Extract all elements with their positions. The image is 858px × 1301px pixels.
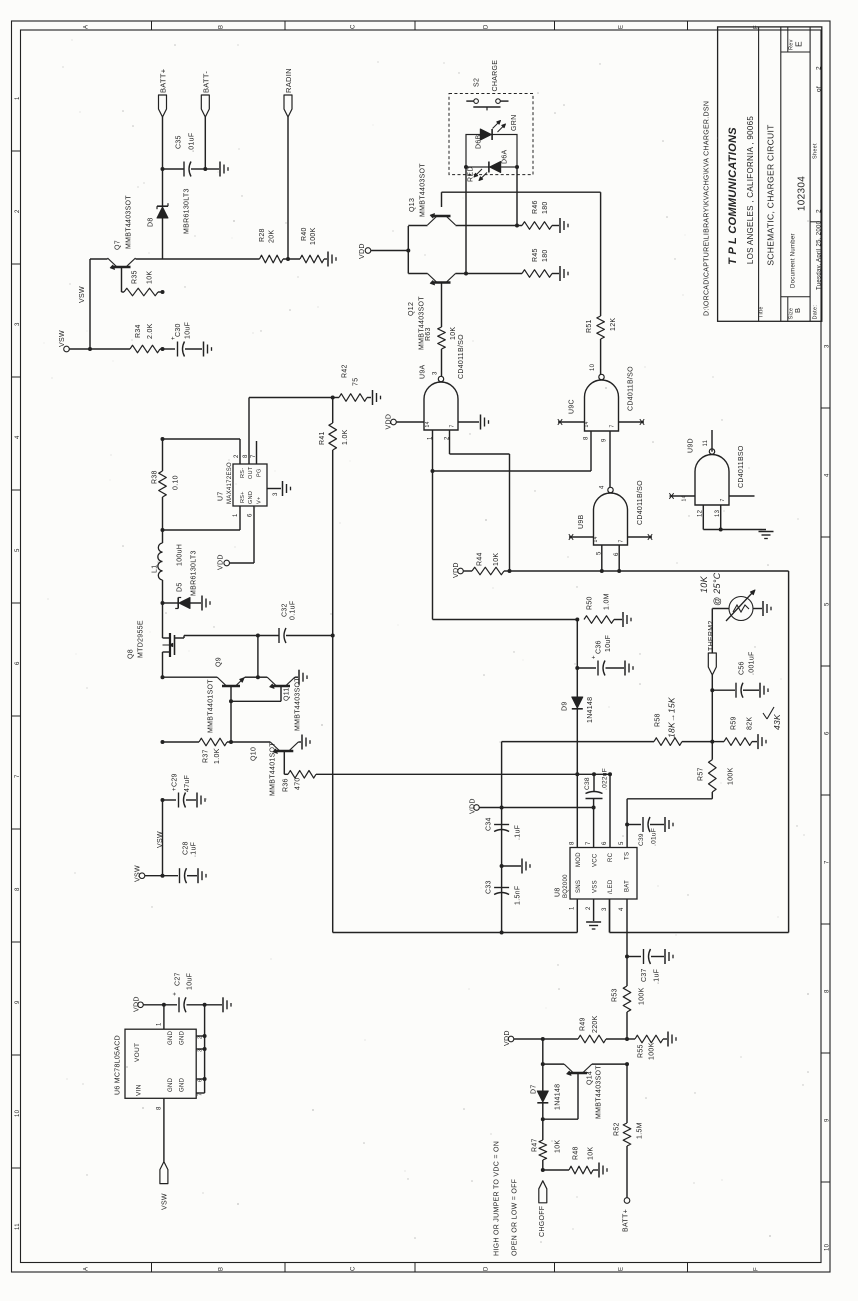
ground at U9D inputs: [759, 530, 774, 539]
svg-text:GND: GND: [168, 1030, 174, 1045]
svg-text:GND: GND: [168, 1077, 174, 1092]
title text doc number 102304: [797, 176, 808, 211]
svg-text:R40: R40: [301, 227, 308, 241]
connector CHGOFF: [539, 1181, 547, 1237]
svg-text:LOS ANGELES , CALIFORNIA , 900: LOS ANGELES , CALIFORNIA , 90065: [746, 116, 755, 265]
svg-text:U6 MC78L05ACD: U6 MC78L05ACD: [115, 1035, 122, 1095]
title text rev E: [794, 41, 804, 47]
wire therm node up to THERM2: [711, 675, 713, 742]
wire C37 to ground: [651, 956, 664, 958]
connector VSW (bottom): [160, 1162, 169, 1210]
wire to Q9: [163, 676, 218, 678]
svg-text:4: 4: [15, 435, 21, 439]
svg-text:R49: R49: [580, 1017, 587, 1031]
svg-text:3: 3: [433, 371, 439, 375]
svg-text:R34: R34: [135, 324, 142, 338]
svg-text:2: 2: [234, 454, 240, 458]
svg-text:1.0M: 1.0M: [604, 593, 611, 610]
svg-text:U9A: U9A: [420, 364, 427, 379]
svg-text:MBR6130LT3: MBR6130LT3: [184, 188, 191, 234]
pin 4 of U8: [619, 907, 625, 911]
svg-text:10: 10: [15, 1109, 21, 1117]
pin 12 of U9D: [698, 509, 704, 517]
ic U7 MAX4172ESO: [218, 462, 268, 506]
diode D5 MBR6130LT3: [175, 550, 201, 608]
svg-text:Document Number: Document Number: [791, 233, 797, 288]
wire pin1 node to U9C pin8: [433, 431, 592, 471]
junction VDD/VCC: [592, 806, 596, 810]
svg-text:B: B: [219, 25, 225, 29]
svg-text:10uF: 10uF: [605, 635, 612, 652]
svg-text:TS: TS: [625, 852, 631, 860]
node VSW (upper): [59, 330, 69, 352]
note open or low: [512, 1179, 519, 1256]
svg-text:R59: R59: [731, 716, 738, 730]
wire /LED pin down: [609, 899, 611, 933]
svg-text:D: D: [484, 24, 490, 29]
svg-text:Q14: Q14: [587, 1071, 594, 1085]
wire C27 to ground: [187, 1003, 223, 1007]
junction Q9 collector on BATT+ line: [161, 675, 165, 679]
svg-text:VOUT: VOUT: [134, 1043, 141, 1062]
wire U7 V+ to VDD: [230, 506, 255, 563]
svg-text:C29: C29: [172, 773, 179, 787]
svg-text:HIGH OR JUMPER TO VDC = ON: HIGH OR JUMPER TO VDC = ON: [494, 1141, 501, 1256]
junction D5 on BATT+/L1 node: [161, 601, 165, 605]
svg-text:Title: Title: [759, 306, 765, 318]
svg-text:R47: R47: [532, 1138, 539, 1152]
resistor R45 180: [522, 248, 559, 277]
svg-text:102304: 102304: [797, 176, 808, 211]
svg-text:R52: R52: [614, 1122, 621, 1136]
svg-text:3: 3: [273, 492, 279, 496]
svg-text:.022uF: .022uF: [602, 768, 609, 790]
svg-text:@ 25°C: @ 25°C: [712, 572, 722, 606]
resistor R46 180: [522, 200, 559, 229]
svg-text:C56: C56: [739, 661, 746, 675]
wire VDD to R44: [463, 570, 472, 572]
capacitor C33 1.5nF: [486, 880, 522, 905]
svg-text:S2: S2: [474, 78, 481, 87]
svg-text:10K: 10K: [588, 1147, 595, 1160]
svg-text:R38: R38: [152, 470, 159, 484]
svg-text:7: 7: [610, 424, 616, 427]
svg-text:8: 8: [243, 454, 249, 458]
svg-text:100K: 100K: [310, 227, 317, 245]
resistor R47 10K: [532, 1119, 562, 1170]
svg-text:+: +: [592, 655, 598, 659]
pin 6 of U6: [198, 1079, 204, 1082]
nand gate U9D CD4011BSO: [688, 438, 746, 505]
junction Q14 emitter line: [541, 1062, 545, 1066]
wire C30 to ground: [185, 348, 202, 350]
svg-text:V+: V+: [257, 497, 263, 504]
wire Q12 collector line to R45: [456, 272, 523, 276]
resistor R38 0.10 (sense): [152, 439, 180, 530]
junction C36 node: [575, 666, 579, 670]
wire R63 to U9A output: [441, 349, 443, 377]
svg-text:Q10: Q10: [251, 747, 258, 761]
svg-text:VSW: VSW: [135, 865, 142, 882]
ground at R46: [560, 218, 568, 233]
LED D6B GRN: [476, 115, 519, 149]
svg-text:E: E: [619, 1267, 625, 1271]
junction pin6: [617, 569, 621, 573]
U9B left stub: [569, 534, 599, 542]
junction pin5: [600, 569, 604, 573]
svg-text:8: 8: [584, 436, 590, 440]
transistor Q12 MMBT4403SOT: [408, 274, 456, 351]
wire BATT- node to ground: [205, 168, 219, 170]
junction therm node: [710, 740, 714, 744]
svg-text:7: 7: [15, 774, 21, 778]
svg-text:MOD: MOD: [576, 852, 582, 867]
node VDD (Q12/Q13 drive): [359, 243, 371, 259]
title block frame: [718, 27, 822, 321]
wire Q14 collector to R52 net: [592, 1062, 629, 1066]
title label Document Number: [791, 233, 797, 288]
pin 1 of U6: [157, 1022, 163, 1026]
title text size B: [793, 308, 802, 313]
svg-text:MMBT4403SOT: MMBT4403SOT: [126, 195, 133, 249]
svg-text:GND: GND: [180, 1030, 186, 1045]
svg-text:VDD: VDD: [386, 414, 393, 430]
svg-text:C27: C27: [175, 972, 182, 986]
junction R35 to BATT+ line: [161, 290, 165, 294]
svg-text:Q13: Q13: [409, 198, 416, 212]
svg-text:CHGOFF: CHGOFF: [539, 1206, 546, 1237]
svg-text:3: 3: [825, 344, 831, 348]
svg-text:.001uF: .001uF: [749, 651, 756, 675]
svg-text:7: 7: [825, 860, 831, 864]
wire C39 to ground: [650, 824, 664, 826]
junction C56 node: [710, 688, 714, 692]
U9A ground stub: [450, 422, 480, 428]
svg-text:U9D: U9D: [688, 438, 695, 453]
ic U8 BQ2000: [555, 848, 638, 900]
svg-text:7: 7: [586, 841, 592, 845]
wire U9A pin1 down: [432, 430, 434, 620]
wire C32 to loop: [286, 635, 333, 637]
pin 3 of U9A: [433, 371, 439, 375]
pin 3 of U8: [602, 907, 608, 911]
junction C39 node: [625, 823, 629, 827]
wire U6 VIN to VSW connector: [163, 1098, 165, 1161]
capacitor C36 10uF: [592, 635, 613, 676]
node VDD at R49: [504, 1030, 514, 1046]
wire BATT+ line to VSW node: [162, 800, 164, 876]
wire Q11 to ground: [295, 676, 298, 678]
svg-text:8: 8: [825, 989, 831, 993]
svg-text:C28: C28: [183, 841, 190, 855]
svg-text:BATT+: BATT+: [159, 68, 168, 93]
ground at VSS: [586, 922, 601, 929]
handwritten thermistor value: [699, 572, 722, 606]
svg-text:C: C: [351, 1266, 357, 1271]
connector BATT- (top): [201, 71, 210, 117]
wire Q13 collector line to R46: [456, 224, 523, 228]
resistor R63 10K: [425, 327, 457, 349]
junction R47/R48/CHGOFF: [541, 1168, 545, 1172]
junction C33 to SNS bus: [500, 931, 504, 935]
wire to C29: [163, 799, 177, 801]
svg-text:.1uF: .1uF: [191, 842, 198, 857]
svg-text:RS+: RS+: [240, 491, 246, 503]
svg-text:4: 4: [619, 907, 625, 911]
svg-text:BATT-: BATT-: [201, 71, 210, 93]
wire VDD vertical through C34: [501, 808, 503, 933]
junction U9A pin1 to U9C pin8: [431, 469, 435, 473]
svg-text:VDD: VDD: [359, 243, 366, 259]
svg-text:0.10: 0.10: [173, 475, 180, 490]
wire C29 to ground: [186, 799, 196, 801]
wire U9D output stub: [711, 430, 713, 452]
ground at R59: [758, 734, 766, 749]
svg-text:Tuesday, April 25, 2000: Tuesday, April 25, 2000: [817, 220, 823, 290]
ground between C34/C33: [522, 859, 530, 874]
svg-text:/LED: /LED: [608, 879, 614, 894]
pin 6 of U8: [602, 841, 608, 845]
capacitor C56 .001uF: [736, 651, 756, 697]
svg-text:470: 470: [295, 777, 302, 790]
resistor R42 75: [333, 364, 371, 401]
svg-text:Q7: Q7: [115, 240, 122, 250]
node BATT+ (bottom): [623, 1198, 630, 1232]
wire Q8 gate line: [184, 635, 258, 637]
svg-text:.01uF: .01uF: [651, 828, 658, 846]
pin 1 of U8: [570, 906, 576, 910]
wire to D5: [163, 602, 179, 604]
svg-text:RADIN: RADIN: [284, 68, 293, 93]
title label Date: [813, 305, 819, 320]
wire LED right to Q13 collector: [516, 167, 518, 226]
connector RADIN: [284, 68, 293, 117]
wire U9A pin1 corner to R50: [433, 619, 578, 621]
svg-text:B: B: [219, 1267, 225, 1271]
wire VDD to R49: [514, 1037, 578, 1041]
ground at C36: [625, 661, 633, 676]
svg-text:6: 6: [602, 841, 608, 845]
svg-text:B: B: [793, 308, 802, 313]
svg-text:9: 9: [15, 1000, 21, 1004]
pin 3 of U6: [198, 1049, 204, 1052]
svg-text:1N4148: 1N4148: [587, 697, 594, 723]
svg-text:.1uF: .1uF: [515, 825, 522, 840]
svg-text:C35: C35: [176, 135, 183, 149]
wire center to Q11: [258, 676, 267, 678]
svg-text:9: 9: [602, 438, 608, 442]
svg-text:Date:: Date:: [813, 305, 819, 320]
svg-text:1.5nF: 1.5nF: [515, 886, 522, 905]
svg-text:GND: GND: [248, 491, 254, 504]
svg-text:Q9: Q9: [216, 657, 223, 667]
wire R40 to ground: [324, 258, 327, 260]
title label Rev: [789, 39, 795, 50]
svg-text:C38: C38: [584, 777, 591, 790]
pin 2 of U9A: [445, 436, 451, 440]
wire R37 to Q10: [227, 740, 270, 744]
pin 5 of U9B: [597, 551, 603, 555]
wire TS pin to R57 line: [626, 799, 628, 848]
transistor Q11 MMBT4403SOT: [267, 677, 302, 731]
svg-text:47uF: 47uF: [184, 775, 191, 792]
capacitor C29 47uF: [172, 773, 192, 807]
svg-text:of: of: [816, 86, 823, 92]
svg-text:VDD: VDD: [504, 1030, 511, 1046]
svg-text:1: 1: [15, 96, 21, 100]
U9D left stub: [669, 493, 695, 501]
svg-text:8: 8: [570, 841, 576, 845]
svg-text:R37: R37: [203, 749, 210, 763]
wire C28 to ground: [187, 875, 197, 877]
svg-text:VIN: VIN: [136, 1084, 143, 1096]
wire MOD net down: [576, 620, 578, 848]
svg-text:A: A: [84, 25, 90, 29]
svg-text:100K: 100K: [639, 987, 646, 1005]
svg-text:7: 7: [619, 539, 625, 542]
ground at C27: [223, 997, 231, 1012]
junction R50 node: [575, 618, 579, 622]
svg-text:8: 8: [15, 887, 21, 891]
resistor R50 1.0M: [584, 593, 622, 623]
node VDD at U6: [134, 996, 144, 1012]
ground at thermistor: [763, 601, 771, 616]
svg-text:+: +: [173, 992, 179, 996]
svg-text:D7: D7: [531, 1084, 538, 1094]
wire BAT pin down: [626, 899, 628, 957]
resistor R49 220K: [578, 1015, 627, 1042]
svg-text:BATT+: BATT+: [623, 1209, 630, 1232]
inductor L1 100uH: [152, 530, 184, 603]
svg-text:7: 7: [450, 424, 456, 427]
wire U9C pin9 to U9B output: [609, 431, 611, 487]
title label Size: [789, 308, 795, 320]
resistor R44 10K: [472, 552, 504, 575]
svg-text:GRN: GRN: [511, 115, 518, 131]
svg-text:.01uF: .01uF: [189, 133, 196, 152]
wire U9B pin5 to net: [601, 545, 603, 571]
svg-text:1: 1: [570, 906, 576, 910]
svg-text:THERM2: THERM2: [708, 620, 715, 651]
svg-text:OUT: OUT: [248, 466, 254, 479]
transistor Q10 MMBT4401SOT: [251, 742, 299, 796]
svg-text:R42: R42: [342, 364, 349, 378]
svg-text:10K: 10K: [555, 1140, 562, 1153]
svg-text:Q11: Q11: [284, 687, 291, 701]
svg-text:D:\ORCAD\CAPTURE\LIBRARY\KVACH: D:\ORCAD\CAPTURE\LIBRARY\KVACHG\KVA CHAR…: [704, 101, 711, 316]
connector THERM2: [708, 620, 717, 675]
switch S2 contacts: [466, 99, 508, 111]
capacitor C27 10uF: [173, 972, 194, 1012]
svg-text:1: 1: [157, 1022, 163, 1026]
junction Q9/Q11 base node: [229, 699, 233, 703]
wire VSW node to C28: [145, 874, 178, 878]
svg-text:MMBT4401SOT: MMBT4401SOT: [208, 679, 215, 733]
wire loop left vertical: [333, 636, 502, 933]
resistor R40 100K: [300, 227, 324, 263]
pin 9 of U9C: [602, 438, 608, 442]
svg-text:18K→15K: 18K→15K: [667, 697, 677, 738]
svg-text:R28: R28: [259, 228, 266, 242]
svg-text:100K: 100K: [649, 1042, 656, 1060]
svg-text:U9C: U9C: [569, 399, 576, 414]
svg-text:CD4011B/SO: CD4011B/SO: [637, 480, 644, 525]
svg-text:D5: D5: [177, 582, 184, 592]
wire VDD rail: [479, 807, 593, 809]
svg-text:MMBT4401SOT: MMBT4401SOT: [270, 742, 277, 796]
wire Q14 base down: [543, 1073, 578, 1119]
svg-text:R50: R50: [587, 596, 594, 610]
ic U6 MC78L05ACD: [115, 1029, 197, 1098]
wire to Q14: [543, 1063, 564, 1065]
title label Title: [759, 306, 765, 318]
wire U9B pin6 to net: [618, 545, 620, 571]
pin 6 of U7: [248, 513, 254, 517]
svg-text:2: 2: [816, 209, 823, 213]
pin 3 of U7: [273, 492, 279, 496]
pin 8 of U9C: [584, 436, 590, 440]
svg-text:R48: R48: [573, 1146, 580, 1160]
wire THERM2 to thermistor: [712, 609, 729, 654]
svg-text:R45: R45: [532, 248, 539, 262]
wire to C30: [163, 348, 176, 350]
wire R58 to therm node: [682, 741, 712, 743]
wire gate line to C32: [258, 635, 279, 637]
junction LED box right: [515, 165, 519, 169]
nand gate U9C CD4011B/SO: [569, 366, 635, 431]
wire sense top to U7 pin2: [163, 439, 241, 464]
svg-text:D6B: D6B: [476, 134, 483, 149]
resistor R41 1.0K: [319, 398, 349, 636]
wire VDD to U6 VOUT: [163, 1005, 165, 1029]
wire C56 to ground: [743, 689, 759, 691]
svg-text:5: 5: [619, 841, 625, 845]
svg-text:BAT: BAT: [625, 880, 631, 892]
pin 2 of U6: [198, 1036, 204, 1039]
wire VSW node to R34: [69, 347, 130, 351]
capacitor C37 .1uF: [641, 949, 661, 984]
ground at R50: [623, 612, 631, 627]
transistor Q9 MMBT4401SOT: [208, 657, 246, 733]
svg-text:14: 14: [584, 421, 590, 427]
svg-text:R44: R44: [477, 552, 484, 566]
svg-text:RC: RC: [608, 852, 614, 862]
svg-text:43K: 43K: [772, 714, 782, 730]
svg-text:7: 7: [251, 454, 257, 458]
svg-text:C33: C33: [486, 880, 493, 894]
ground at C37: [665, 949, 673, 964]
svg-text:U8: U8: [555, 887, 562, 897]
svg-text:Q12: Q12: [408, 302, 415, 316]
svg-text:CD4011B/SO: CD4011B/SO: [458, 334, 465, 379]
svg-text:.1uF: .1uF: [654, 969, 661, 984]
svg-text:R51: R51: [586, 319, 593, 333]
transistor Q14 MMBT4403SOT: [564, 1064, 603, 1119]
ground at C28: [198, 868, 206, 883]
pin 8 of U8: [570, 841, 576, 845]
capacitor C30 10uF: [171, 322, 192, 357]
svg-text:U9B: U9B: [578, 514, 585, 529]
junction R34/C30 on BATT+ line: [161, 347, 165, 351]
junction C37 node: [625, 955, 629, 959]
svg-text:1.0K: 1.0K: [342, 429, 349, 445]
svg-text:R41: R41: [319, 431, 326, 445]
ground at C29: [197, 793, 205, 808]
svg-text:VSS: VSS: [593, 880, 599, 893]
svg-text:3: 3: [15, 322, 21, 326]
U9C left stub: [558, 419, 590, 427]
svg-text:MMBT4403SOT: MMBT4403SOT: [420, 163, 427, 217]
